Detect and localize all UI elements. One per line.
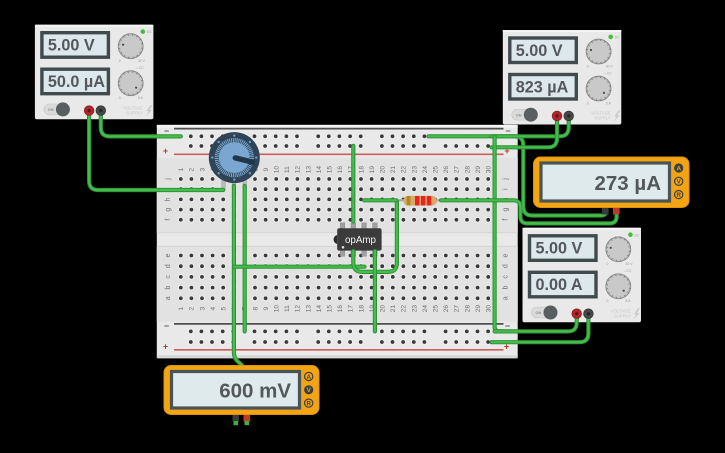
- svg-text:1: 1: [178, 306, 185, 310]
- svg-text:ON: ON: [516, 113, 522, 117]
- svg-text:a: a: [165, 296, 172, 300]
- svg-text:11: 11: [284, 166, 291, 173]
- svg-text:3: 3: [199, 167, 206, 171]
- svg-text:SUPPLY: SUPPLY: [126, 110, 143, 115]
- svg-text:b: b: [503, 286, 510, 290]
- svg-text:13: 13: [305, 166, 312, 174]
- svg-text:5.00 V: 5.00 V: [516, 42, 563, 60]
- svg-text:5 A: 5 A: [138, 96, 144, 100]
- svg-text:8: 8: [252, 306, 259, 310]
- svg-text:30: 30: [486, 166, 493, 174]
- svg-text:5.00 V: 5.00 V: [48, 37, 95, 55]
- svg-text:24: 24: [422, 166, 429, 174]
- svg-text:20: 20: [380, 166, 387, 174]
- svg-text:21: 21: [390, 305, 397, 313]
- svg-text:15: 15: [327, 166, 334, 174]
- svg-text:9: 9: [263, 306, 270, 310]
- svg-text:25: 25: [433, 305, 440, 313]
- svg-text:600 mV: 600 mV: [219, 380, 291, 403]
- svg-text:11: 11: [284, 305, 291, 312]
- svg-text:18: 18: [358, 166, 365, 174]
- svg-text:0: 0: [607, 299, 609, 303]
- svg-text:3: 3: [199, 306, 206, 310]
- svg-text:28: 28: [464, 305, 471, 313]
- svg-text:30: 30: [486, 305, 493, 313]
- svg-text:50.0 µA: 50.0 µA: [48, 73, 105, 91]
- svg-text:d: d: [165, 264, 172, 268]
- svg-text:23: 23: [411, 166, 418, 174]
- svg-text:16: 16: [337, 166, 344, 174]
- svg-text:24: 24: [422, 305, 429, 313]
- svg-text:0: 0: [587, 101, 589, 105]
- svg-text:j: j: [503, 178, 510, 181]
- svg-text:DC: DC: [635, 233, 640, 237]
- svg-text:5: 5: [221, 306, 228, 310]
- svg-text:g: g: [503, 208, 510, 212]
- svg-text:30 V: 30 V: [606, 64, 614, 68]
- svg-text:e: e: [165, 253, 172, 257]
- svg-text:f: f: [165, 219, 172, 221]
- svg-text:273 µA: 273 µA: [594, 172, 661, 195]
- svg-text:ON: ON: [536, 311, 542, 315]
- svg-text:12: 12: [295, 305, 302, 313]
- svg-text:9: 9: [263, 167, 270, 171]
- svg-text:26: 26: [443, 305, 450, 313]
- svg-text:2: 2: [189, 306, 196, 310]
- svg-text:823 µA: 823 µA: [516, 78, 569, 96]
- svg-text:DC: DC: [147, 30, 152, 34]
- svg-text:0: 0: [119, 96, 121, 100]
- svg-text:2: 2: [189, 167, 196, 171]
- svg-text:SUPPLY: SUPPLY: [594, 116, 611, 121]
- svg-text:15: 15: [327, 305, 334, 313]
- svg-text:A: A: [306, 374, 311, 381]
- svg-text:30 V: 30 V: [138, 59, 146, 63]
- svg-text:+: +: [163, 342, 168, 352]
- svg-text:5 A: 5 A: [626, 299, 632, 303]
- svg-text:+: +: [163, 146, 168, 156]
- svg-text:17: 17: [348, 305, 355, 313]
- svg-text:25: 25: [433, 166, 440, 174]
- svg-text:g: g: [165, 208, 172, 212]
- svg-text:16: 16: [337, 305, 344, 313]
- svg-text:0.00 A: 0.00 A: [536, 276, 583, 294]
- svg-text:ON: ON: [48, 108, 54, 112]
- svg-text:1: 1: [178, 167, 185, 171]
- svg-text:c: c: [503, 275, 510, 279]
- svg-text:21: 21: [390, 166, 397, 174]
- svg-text:○ CC: ○ CC: [136, 66, 144, 70]
- svg-text:19: 19: [369, 166, 376, 174]
- svg-text:12: 12: [295, 166, 302, 174]
- svg-text:30 V: 30 V: [626, 262, 634, 266]
- svg-text:14: 14: [316, 166, 323, 174]
- svg-text:10: 10: [274, 166, 281, 174]
- svg-text:○ CC: ○ CC: [624, 269, 632, 273]
- svg-text:29: 29: [475, 305, 482, 313]
- svg-text:d: d: [503, 264, 510, 268]
- svg-text:10: 10: [274, 305, 281, 313]
- svg-text:27: 27: [454, 305, 461, 313]
- svg-text:−: −: [164, 321, 169, 331]
- svg-text:23: 23: [411, 305, 418, 313]
- svg-text:DC: DC: [615, 36, 620, 40]
- svg-text:c: c: [165, 275, 172, 279]
- svg-text:a: a: [503, 296, 510, 300]
- svg-text:0: 0: [119, 59, 121, 63]
- svg-text:V: V: [306, 387, 311, 394]
- svg-text:opAmp: opAmp: [345, 235, 377, 246]
- svg-text:j: j: [165, 178, 172, 181]
- svg-text:e: e: [503, 253, 510, 257]
- svg-text:22: 22: [401, 305, 408, 313]
- svg-text:18: 18: [358, 305, 365, 313]
- svg-text:13: 13: [305, 305, 312, 313]
- svg-text:5.00 V: 5.00 V: [536, 240, 583, 258]
- svg-text:4: 4: [210, 306, 217, 310]
- svg-text:A: A: [676, 165, 681, 172]
- svg-text:22: 22: [401, 166, 408, 174]
- svg-text:R: R: [306, 400, 311, 407]
- svg-text:SUPPLY: SUPPLY: [614, 314, 631, 319]
- svg-text:5 A: 5 A: [606, 101, 612, 105]
- svg-text:○ CC: ○ CC: [604, 71, 612, 75]
- svg-text:26: 26: [443, 166, 450, 174]
- svg-text:h: h: [165, 197, 172, 201]
- svg-text:29: 29: [475, 166, 482, 174]
- svg-text:0: 0: [587, 64, 589, 68]
- svg-text:R: R: [676, 192, 681, 199]
- svg-text:14: 14: [316, 305, 323, 313]
- svg-text:b: b: [165, 286, 172, 290]
- svg-text:f: f: [503, 219, 510, 221]
- svg-text:20: 20: [380, 305, 387, 313]
- svg-text:28: 28: [464, 166, 471, 174]
- svg-text:27: 27: [454, 166, 461, 174]
- svg-text:0: 0: [607, 262, 609, 266]
